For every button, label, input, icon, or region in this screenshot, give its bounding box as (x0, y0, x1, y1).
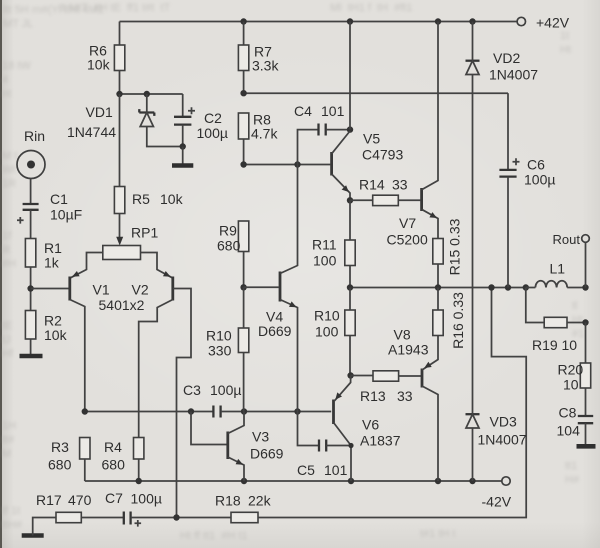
svg-text:C4793: C4793 (362, 147, 403, 163)
svg-text:RP1: RP1 (131, 225, 158, 241)
svg-text:-42V: -42V (482, 494, 512, 510)
wire R7/R8 node to C6 (244, 92, 508, 94)
svg-text:R16 0.33: R16 0.33 (450, 292, 466, 349)
resistor R3 680 (48, 438, 90, 482)
svg-text:1N4007: 1N4007 (489, 67, 538, 83)
resistor R17 470 (36, 492, 124, 523)
svg-text:4.7k: 4.7k (251, 126, 278, 142)
node junction C6 bottom (505, 284, 511, 290)
ground bottom left (22, 518, 56, 536)
svg-text:R10: R10 (206, 328, 232, 344)
svg-text:C5: C5 (297, 462, 315, 478)
svg-text:680: 680 (102, 457, 126, 473)
svg-text:104: 104 (557, 423, 581, 439)
svg-text:A1837: A1837 (360, 433, 401, 449)
svg-text:101: 101 (321, 103, 345, 119)
wire output rail (350, 287, 526, 289)
node junction V6 emitter / R13 (347, 372, 353, 378)
node junction L1 left (523, 284, 529, 290)
svg-text:C2: C2 (204, 110, 222, 126)
node junction V3 base tap (188, 408, 194, 414)
svg-text:680: 680 (48, 457, 72, 473)
resistor R2 10k (25, 311, 67, 355)
svg-text:100µ: 100µ (131, 491, 162, 507)
svg-text:R13: R13 (360, 388, 386, 404)
svg-text:100µ: 100µ (210, 382, 241, 398)
svg-text:C1: C1 (50, 191, 68, 207)
resistor R10 100 (driver) (314, 288, 355, 376)
terminal +42V (517, 17, 525, 25)
node junction feedback / V2 base (173, 514, 179, 520)
potentiometer RP1 (103, 225, 159, 260)
svg-text:VD2: VD2 (493, 50, 520, 66)
svg-text:C3: C3 (183, 382, 201, 398)
svg-text:R3: R3 (51, 439, 69, 455)
node junction R15/R16 (435, 284, 441, 290)
svg-text:10: 10 (563, 377, 579, 393)
wire RP1 left to V1 emitter (71, 253, 103, 278)
resistor R16 0.33 (433, 288, 466, 349)
node junction V5 emitter / R14 / R11 (347, 197, 353, 203)
svg-text:10: 10 (562, 337, 578, 353)
node junction R11/R10 output (347, 284, 353, 290)
terminal Rout (553, 232, 590, 288)
node junction C4 branch / V4 collector (294, 161, 300, 167)
svg-text:R5: R5 (132, 191, 150, 207)
svg-text:V8: V8 (394, 327, 411, 343)
svg-text:10k: 10k (160, 191, 184, 207)
svg-text:R20: R20 (558, 362, 584, 378)
svg-text:R11: R11 (312, 237, 337, 253)
node junction R8/R9 (240, 161, 246, 167)
svg-text:R18: R18 (215, 493, 241, 509)
resistor R4 680 (102, 438, 144, 482)
resistor R18 22k (215, 288, 526, 523)
svg-text:R9: R9 (219, 223, 237, 239)
svg-text:100: 100 (313, 253, 337, 269)
diode VD2 1N4007 (466, 22, 539, 415)
svg-text:470: 470 (68, 492, 92, 508)
wire RP1 right to V2 emitter (141, 253, 173, 278)
capacitor C8 104 (557, 405, 594, 445)
node junction top rail at VD2 (469, 18, 475, 24)
svg-text:V5: V5 (363, 131, 380, 147)
capacitor C5 101 (297, 412, 351, 479)
wire V1 base (31, 288, 69, 290)
wire V5 collector column (349, 22, 351, 130)
resistor R10 330 (206, 287, 249, 411)
svg-text:D669: D669 (250, 446, 284, 462)
svg-text:A1943: A1943 (388, 342, 429, 358)
terminal -42V (502, 477, 510, 485)
svg-text:330: 330 (208, 343, 232, 359)
diode VD3 1N4007 (466, 414, 527, 482)
capacitor C1 10uF (17, 191, 82, 239)
ground under R2 (20, 354, 43, 359)
transistor V5 C4793 (332, 131, 404, 201)
node junction R10/V3 collector (241, 408, 247, 414)
svg-text:1N4007: 1N4007 (478, 432, 527, 448)
svg-text:10µF: 10µF (50, 207, 82, 223)
svg-text:VD1: VD1 (86, 104, 113, 120)
svg-text:VD3: VD3 (490, 414, 517, 430)
transistor V7 C5200 (387, 22, 439, 248)
capacitor C2 100u (174, 94, 228, 147)
svg-text:Rout: Rout (553, 232, 581, 247)
node junction C5 / V6 collector (348, 443, 353, 448)
node junction R7/R8 (240, 90, 246, 96)
node junction L1 right / output (582, 284, 588, 290)
resistor R5 10k (114, 94, 183, 238)
svg-text:D669: D669 (258, 323, 292, 339)
node junction top rail at R7 (240, 18, 246, 24)
transistor V2 (PNP 5401) (99, 271, 192, 518)
node junction feedback tap (488, 284, 494, 290)
capacitor C3 100u (183, 382, 331, 418)
resistor R13 33 (351, 371, 421, 404)
svg-text:680: 680 (217, 238, 241, 254)
node A rail (V1 collector / C3 / V3 base) (85, 411, 213, 413)
capacitor C4 101 (294, 103, 350, 165)
svg-text:22k: 22k (248, 493, 272, 509)
transistor V8 A1943 (388, 327, 438, 482)
resistor R11 100 (312, 200, 355, 287)
svg-text:R14: R14 (359, 177, 385, 193)
svg-text:10k: 10k (44, 327, 68, 343)
node junction R19/R20 (582, 319, 588, 325)
svg-text:100: 100 (315, 324, 339, 340)
page edge dark scan line (0, 0, 2, 548)
svg-text:V7: V7 (399, 215, 416, 231)
resistor R9 680 (217, 221, 249, 287)
node junction V3 emitter (241, 478, 247, 484)
node junction VD3 anode (469, 478, 475, 484)
svg-text:C5200: C5200 (387, 232, 428, 248)
node junction input / V1 base (27, 285, 33, 291)
svg-text:R19: R19 (532, 337, 558, 353)
resistor R8 4.7k (238, 112, 278, 165)
svg-text:R10: R10 (314, 308, 340, 324)
resistor R19 10 (526, 288, 586, 354)
resistor R7 3.3k (238, 22, 279, 94)
capacitor C7 100u (105, 490, 231, 527)
svg-text:1k: 1k (44, 255, 60, 271)
transistor V3 D669 (191, 412, 284, 482)
svg-text:+42V: +42V (536, 15, 570, 31)
svg-text:Rin: Rin (24, 128, 45, 144)
svg-text:C8: C8 (559, 405, 577, 421)
svg-text:33: 33 (392, 177, 408, 193)
resistor R1 1k (25, 239, 62, 311)
svg-text:C6: C6 (527, 157, 545, 173)
node junction top rail at V5 collector (347, 18, 353, 24)
wire VD1/C2 node (120, 93, 183, 95)
svg-text:C4: C4 (294, 103, 312, 119)
node junction R6/R5 (116, 91, 122, 97)
node junction R4 bottom (136, 478, 142, 484)
svg-text:3.3k: 3.3k (252, 58, 279, 74)
svg-text:L1: L1 (550, 261, 566, 277)
wire Rin to C1 (30, 179, 32, 204)
node junction top rail at V7 collector (435, 18, 441, 24)
resistor R20 10 (558, 323, 591, 416)
svg-text:100µ: 100µ (524, 172, 555, 188)
svg-text:R15 0.33: R15 0.33 (447, 218, 463, 275)
wire R8/R9 node to V5 base (244, 164, 331, 166)
inductor L1 (526, 261, 586, 288)
svg-text:101: 101 (324, 462, 348, 478)
svg-text:5401x2: 5401x2 (99, 297, 145, 313)
node junction V8 collector bottom (435, 478, 441, 484)
svg-text:1N4744: 1N4744 (67, 124, 116, 140)
svg-text:V1: V1 (93, 282, 110, 298)
wire -42V rail (85, 480, 502, 482)
transistor V6 A1837 (334, 376, 401, 482)
wire +42V top rail (120, 21, 517, 23)
connector Rin (17, 128, 45, 179)
transistor V1 (PNP 5401) (70, 271, 110, 412)
node junction VD1/C2 bottom (180, 143, 186, 149)
node junction C4 / V5 collector (347, 126, 353, 132)
node junction V6 collector bottom (348, 478, 354, 484)
capacitor C6 100u (499, 93, 555, 287)
resistor R6 (87, 22, 125, 95)
svg-text:33: 33 (397, 388, 413, 404)
node junction R9/R10/V4 base (240, 284, 246, 290)
svg-text:C7: C7 (105, 490, 123, 506)
node junction V4 emitter / C5 / V6 base (294, 408, 300, 414)
resistor R15 0.33 (433, 218, 463, 287)
transistor V4 D669 (244, 165, 298, 412)
node junction VD1 top (144, 91, 150, 97)
svg-text:V6: V6 (362, 417, 379, 433)
svg-text:R4: R4 (104, 439, 122, 455)
svg-text:100µ: 100µ (197, 125, 228, 141)
svg-text:R17: R17 (36, 492, 62, 508)
svg-text:10k: 10k (87, 57, 111, 73)
ground under C2 (172, 147, 193, 166)
svg-text:V3: V3 (252, 429, 269, 445)
ground under C8 (577, 444, 596, 449)
resistor R14 33 (350, 177, 420, 206)
svg-text:V2: V2 (132, 282, 149, 298)
zener diode VD1 1N4744 (67, 94, 183, 147)
